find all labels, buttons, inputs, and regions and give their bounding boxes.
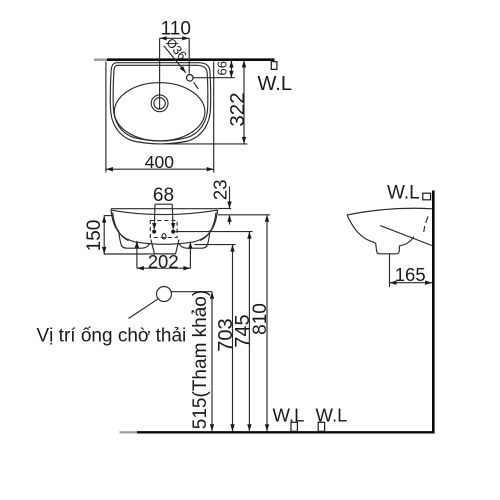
W.L marker flag (ground 2) <box>318 422 324 431</box>
W.L marker flag (ground 1) <box>291 422 297 431</box>
dimension 110 <box>160 18 191 73</box>
underside arc to wall <box>399 237 414 246</box>
svg-text:Vị trí ống chờ thải: Vị trí ống chờ thải <box>37 325 187 346</box>
basin side profile: top edge <box>347 208 432 215</box>
svg-text:150: 150 <box>84 220 105 252</box>
faucet hole (double circle) <box>151 95 168 112</box>
drain pipe line below <box>389 254 391 287</box>
leader from circle to 515 dimension <box>172 291 213 293</box>
drain stub circle marker <box>157 287 172 302</box>
svg-text:322: 322 <box>226 92 249 126</box>
svg-text:23: 23 <box>209 180 230 201</box>
leader from circle to text <box>129 299 159 319</box>
dimension 202 <box>135 241 193 272</box>
bowl oval (top view) <box>114 83 205 141</box>
svg-text:202: 202 <box>148 251 179 272</box>
svg-text:400: 400 <box>145 152 174 172</box>
ground line (thick) <box>120 431 435 433</box>
dimension 23 <box>209 180 231 225</box>
wall vertical line (thick) <box>432 191 435 434</box>
dimension 66 <box>193 61 235 78</box>
svg-text:165: 165 <box>395 264 426 285</box>
svg-text:515(Tham khảo): 515(Tham khảo) <box>190 290 211 429</box>
dimension 703 <box>195 245 238 432</box>
wall line (top, thick) <box>94 59 275 61</box>
svg-text:W.L: W.L <box>387 183 420 204</box>
label O36 with leader <box>163 36 198 89</box>
bowl inner side lines <box>113 213 129 241</box>
dashed hidden box <box>150 221 177 238</box>
svg-text:68: 68 <box>153 185 174 206</box>
svg-text:810: 810 <box>250 303 271 335</box>
left wing bracket <box>118 230 149 248</box>
dimension 810 <box>218 215 271 431</box>
dimension 165 <box>390 264 433 285</box>
dimension 150 <box>84 216 176 254</box>
rim lower line <box>111 210 217 214</box>
basin side profile: front and bottom <box>347 215 399 254</box>
right wing bracket <box>179 230 210 248</box>
dimension 322 <box>163 60 249 144</box>
drain boss (center trapezoid) <box>151 240 179 255</box>
interior diagonal line <box>380 226 432 246</box>
bowl outer silhouette <box>111 209 218 244</box>
small hole (O36) <box>187 75 194 82</box>
basin outer outline (top view) <box>110 63 210 144</box>
svg-text:W.L: W.L <box>273 404 305 425</box>
dimension 400 <box>106 62 214 173</box>
dimension 745 <box>176 232 254 432</box>
dimension 515 (Tham khao) <box>190 290 214 432</box>
W.L marker flag (side view) <box>423 193 431 200</box>
dimension 68 <box>152 185 175 230</box>
svg-text:W.L: W.L <box>258 73 292 95</box>
fixing hole dots <box>152 230 156 234</box>
centerline through faucet hole <box>159 38 161 109</box>
hidden dashes near wall <box>424 217 428 233</box>
W.L marker flag (top right) <box>271 62 277 70</box>
svg-text:66: 66 <box>214 61 229 75</box>
basin inner rim line (top view) <box>113 65 208 141</box>
rim top line <box>111 208 218 210</box>
small oval (overflow) <box>162 234 166 239</box>
